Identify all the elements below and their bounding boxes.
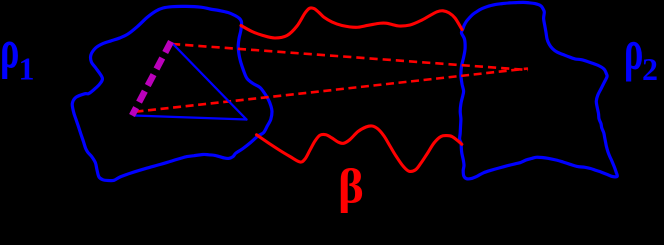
svg-text:1: 1 [19,51,35,87]
svg-text:2: 2 [642,51,658,87]
svg-text:β: β [338,159,364,214]
svg-text:ρ: ρ [624,19,644,82]
svg-text:ρ: ρ [0,19,19,80]
